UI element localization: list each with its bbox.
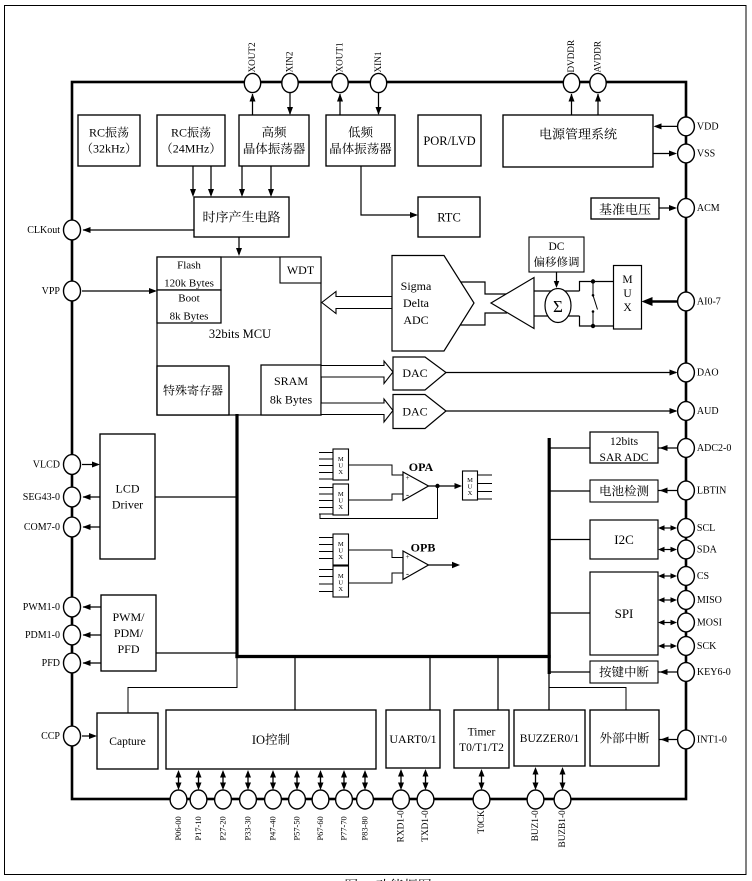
wire LCD to SEG43-0 xyxy=(83,496,100,498)
pin VLCD xyxy=(64,455,81,475)
pin ADC2-0 xyxy=(678,439,695,458)
svg-text:Timer: Timer xyxy=(468,726,496,738)
wire BUZZER to bus xyxy=(548,674,550,710)
svg-text:BUZZER0/1: BUZZER0/1 xyxy=(520,733,580,745)
pin INT1-0 xyxy=(678,730,695,749)
block DAC1 xyxy=(393,357,446,390)
svg-text:COM7-0: COM7-0 xyxy=(24,522,60,533)
wire INT1-0 to ext interrupt xyxy=(659,739,677,741)
pin P67-60 xyxy=(312,790,329,809)
block Flash 120k xyxy=(157,257,221,290)
wire VPP to MCU xyxy=(82,290,155,292)
wire P27-20 port arrow xyxy=(222,775,224,785)
wire vref to ACM xyxy=(659,207,675,209)
svg-text:I2C: I2C xyxy=(614,532,634,547)
wire OPA mux upper to + xyxy=(349,465,404,475)
wire VDD to power mgmt xyxy=(655,125,677,127)
svg-text:DVDDR: DVDDR xyxy=(566,39,576,73)
pin P77-70 xyxy=(336,790,353,809)
wire SAR ADC to bus xyxy=(549,447,590,449)
block battery detect xyxy=(590,480,658,502)
wire OPB mux lower to - xyxy=(349,573,404,583)
svg-text:RXD1-0: RXD1-0 xyxy=(397,810,407,842)
svg-text:DAC: DAC xyxy=(402,366,427,380)
pin RXD1-0 xyxy=(393,790,410,809)
pin ACM xyxy=(678,199,695,218)
wire UART to bus xyxy=(429,658,431,710)
OPA input MUX upper xyxy=(333,449,349,480)
OPB input MUX upper xyxy=(333,534,349,565)
svg-text:P17-10: P17-10 xyxy=(194,816,203,840)
block DC offset trim xyxy=(529,237,584,272)
svg-text:INT1-0: INT1-0 xyxy=(697,735,727,746)
block RTC xyxy=(418,197,480,237)
pin COM7-0 xyxy=(64,517,81,537)
block BUZZER0/1 xyxy=(514,710,585,766)
wire PWM to PDM1-0 xyxy=(83,634,101,636)
svg-text:IO: IO xyxy=(252,733,265,747)
caption text xyxy=(346,879,358,881)
svg-text:P83-80: P83-80 xyxy=(361,816,370,840)
block LCD Driver xyxy=(100,434,155,559)
pin MISO xyxy=(678,591,695,610)
svg-text:LCD: LCD xyxy=(116,482,140,496)
wire P67-60 port arrow xyxy=(320,775,322,785)
wire LF osc to RTC xyxy=(361,166,416,215)
fat arrow SRAM to DAC1 xyxy=(321,361,393,384)
block DAC2 xyxy=(393,395,446,429)
svg-text:XIN1: XIN1 xyxy=(373,51,383,72)
op-amp OPB xyxy=(403,551,429,580)
svg-text:SAR ADC: SAR ADC xyxy=(600,452,649,464)
wire OPB mux upper to + xyxy=(349,550,404,558)
block SRAM 8k xyxy=(261,365,321,415)
svg-text:Delta: Delta xyxy=(403,296,430,310)
block WDT xyxy=(280,257,321,283)
wire PWM to PWM1-0 xyxy=(83,606,101,608)
pin LBTIN xyxy=(678,481,695,500)
wire IO control to bus xyxy=(294,658,296,710)
svg-text:X: X xyxy=(338,469,343,476)
svg-text:P33-30: P33-30 xyxy=(244,816,253,840)
pin AVDDR xyxy=(590,73,606,92)
block I2C xyxy=(590,520,658,559)
pin CLKout xyxy=(64,220,81,240)
wire sigma to switch lower xyxy=(580,316,614,326)
OPA feedback wire xyxy=(320,486,438,519)
op-amp OPA xyxy=(403,472,429,501)
pin P06-00 xyxy=(170,790,187,809)
pin SCL xyxy=(678,519,695,538)
svg-text:DC: DC xyxy=(549,241,565,253)
OPA output MUX xyxy=(463,471,478,500)
fat arrow amp to ADC lower xyxy=(461,313,508,325)
block Timer T0/T1/T2 xyxy=(454,710,509,768)
svg-text:PWM/: PWM/ xyxy=(112,610,145,624)
svg-text:VPP: VPP xyxy=(42,286,61,297)
wire SPI to bus xyxy=(549,612,590,614)
block special registers xyxy=(157,366,229,415)
wire amp to sigma lower xyxy=(534,315,580,317)
svg-text:Boot: Boot xyxy=(178,292,199,304)
wire TXD1-0 port arrow xyxy=(425,774,427,785)
pin P57-50 xyxy=(289,790,306,809)
wire DAC2 to AUD xyxy=(446,410,676,412)
wire HF osc to timing gen b xyxy=(270,166,272,195)
pin CS xyxy=(678,567,695,586)
wire P77-70 port arrow xyxy=(343,775,345,785)
bus right vertical xyxy=(548,438,551,674)
svg-text:PFD: PFD xyxy=(42,658,60,669)
pin P33-30 xyxy=(240,790,257,809)
wire timing gen to MCU xyxy=(238,237,240,254)
svg-text:UART0/1: UART0/1 xyxy=(389,732,436,746)
pin MOSI xyxy=(678,613,695,632)
svg-text:Flash: Flash xyxy=(177,259,201,271)
wire SPI MISO xyxy=(663,599,672,601)
block voltage reference xyxy=(591,198,659,219)
svg-text:P47-40: P47-40 xyxy=(269,816,278,840)
svg-text:Capture: Capture xyxy=(109,736,145,748)
pin AUD xyxy=(678,402,695,421)
svg-text:WDT: WDT xyxy=(287,263,315,277)
svg-text:M: M xyxy=(622,274,632,286)
svg-text:8k Bytes: 8k Bytes xyxy=(170,310,209,322)
fat arrow ADC to MCU xyxy=(322,292,392,314)
wire timing gen to CLKout xyxy=(83,229,194,231)
block Sigma Delta ADC xyxy=(392,256,474,352)
bus bottom horizontal xyxy=(235,655,550,658)
svg-text:BUZ1-0: BUZ1-0 xyxy=(531,810,541,841)
svg-text:T0CK: T0CK xyxy=(477,810,487,834)
fat arrow SRAM to DAC2 xyxy=(321,399,393,422)
pin TXD1-0 xyxy=(417,790,434,809)
wire VLCD to LCD xyxy=(82,464,98,466)
block Boot 8k xyxy=(157,290,221,323)
block low-freq crystal oscillator xyxy=(326,115,395,166)
wire sigma to switch upper xyxy=(580,282,614,292)
pin P47-40 xyxy=(265,790,282,809)
wire 24MHz osc to timing gen a xyxy=(192,166,194,195)
block 12bits SAR ADC xyxy=(590,432,658,463)
pin DVDDR xyxy=(563,73,579,92)
svg-text:P06-00: P06-00 xyxy=(174,816,183,840)
wire XIN2 to HF oscillator xyxy=(289,93,291,114)
pin PDM1-0 xyxy=(64,625,81,645)
svg-text:XOUT2: XOUT2 xyxy=(247,42,257,73)
svg-text:8k Bytes: 8k Bytes xyxy=(270,392,313,406)
pin VSS xyxy=(678,144,695,163)
pin KEY6-0 xyxy=(678,663,695,682)
wire P06-00 port arrow xyxy=(178,775,180,785)
block RC oscillator 24MHz xyxy=(157,115,225,166)
svg-text:AUD: AUD xyxy=(697,406,719,417)
wire I2C SCL xyxy=(663,527,672,529)
wire key interrupt to bus xyxy=(549,671,590,673)
summing node sigma circle xyxy=(545,289,571,323)
svg-text:VLCD: VLCD xyxy=(33,460,60,471)
wire BUZ1-0 port arrow xyxy=(535,772,537,785)
pin CCP xyxy=(64,726,81,746)
svg-text:BUZB1-0: BUZB1-0 xyxy=(558,810,568,848)
pin VPP xyxy=(64,281,81,301)
pin SDA xyxy=(678,540,695,559)
svg-text:KEY6-0: KEY6-0 xyxy=(697,667,731,678)
analog input switch xyxy=(591,279,595,283)
svg-text:+: + xyxy=(406,553,410,561)
pin VDD xyxy=(678,117,695,136)
svg-text:AVDDR: AVDDR xyxy=(592,40,602,72)
svg-text:24MHz: 24MHz xyxy=(173,142,210,156)
wire XOUT1 to LF oscillator xyxy=(339,94,341,115)
pin P27-20 xyxy=(215,790,232,809)
block POR/LVD xyxy=(418,115,481,166)
pin T0CK xyxy=(473,790,490,809)
wire DC trim to sigma xyxy=(556,272,558,286)
wire PWM to PFD xyxy=(83,662,101,664)
wire LBTIN to battery detect xyxy=(658,490,677,492)
svg-text:SEG43-0: SEG43-0 xyxy=(23,492,60,503)
wire PWM to bus xyxy=(156,652,237,654)
pin BUZ1-0 xyxy=(527,790,544,809)
svg-text:T0/T1/T2: T0/T1/T2 xyxy=(459,742,504,754)
wire LCD to bus xyxy=(155,496,237,498)
svg-text:TXD1-0: TXD1-0 xyxy=(421,810,431,842)
wire amp to sigma upper xyxy=(534,290,580,292)
wire DVDDR from power mgmt xyxy=(571,94,573,115)
svg-text:ADC: ADC xyxy=(403,313,428,327)
wire P83-80 port arrow xyxy=(364,775,366,785)
pin XIN1 xyxy=(370,73,386,92)
svg-text:12bits: 12bits xyxy=(610,436,639,448)
svg-text:DAC: DAC xyxy=(402,405,427,419)
svg-text:CCP: CCP xyxy=(41,731,60,742)
pin P83-80 xyxy=(357,790,374,809)
svg-text:X: X xyxy=(338,586,343,593)
pin AI0-7 xyxy=(678,292,695,311)
wire SPI MOSI xyxy=(663,622,672,624)
svg-text:RC: RC xyxy=(171,126,187,140)
wire 24MHz osc to timing gen b xyxy=(210,166,212,195)
svg-text:XIN2: XIN2 xyxy=(284,51,294,72)
wire XIN1 to LF oscillator xyxy=(378,93,380,114)
svg-text:SDA: SDA xyxy=(697,545,718,556)
wire ext interrupt to bus xyxy=(549,688,626,711)
block timing generation circuit xyxy=(194,197,289,237)
wire OPA output xyxy=(429,485,461,487)
svg-text:SPI: SPI xyxy=(615,606,634,621)
svg-text:AI0-7: AI0-7 xyxy=(697,297,721,308)
wire OPA mux lower to - xyxy=(349,494,404,500)
pin XOUT1 xyxy=(332,73,348,92)
wire P17-10 port arrow xyxy=(198,775,200,785)
pin SCK xyxy=(678,637,695,656)
svg-text:SCK: SCK xyxy=(697,641,717,652)
svg-text:Driver: Driver xyxy=(112,498,143,512)
svg-text:XOUT1: XOUT1 xyxy=(334,42,344,73)
pin DAO xyxy=(678,363,695,382)
op-amp buffer triangle xyxy=(491,278,534,329)
wire SPI CS xyxy=(663,575,672,577)
svg-text:ADC2-0: ADC2-0 xyxy=(697,443,731,454)
wire CCP to Capture xyxy=(82,735,95,737)
svg-text:RTC: RTC xyxy=(437,210,461,224)
wire LCD to COM7-0 xyxy=(83,526,100,528)
pin P17-10 xyxy=(190,790,207,809)
svg-text:-: - xyxy=(406,569,409,579)
OPA input MUX lower xyxy=(333,484,349,515)
wire DAC1 to DAO xyxy=(446,372,676,374)
svg-text:X: X xyxy=(338,554,343,561)
block IO control xyxy=(166,710,376,769)
svg-text:OPB: OPB xyxy=(411,541,436,555)
wire ADC2-0 to SAR ADC xyxy=(658,447,677,449)
svg-text:X: X xyxy=(338,504,343,511)
svg-text:CS: CS xyxy=(697,571,709,582)
svg-text:PDM/: PDM/ xyxy=(114,626,144,640)
fat wire AI0-7 to MUX xyxy=(652,300,678,303)
wire T0CK port arrow xyxy=(481,774,483,785)
wire HF osc to timing gen a xyxy=(241,166,243,195)
OPB input MUX lower xyxy=(333,566,349,597)
block key interrupt xyxy=(590,661,658,683)
block Capture xyxy=(97,713,158,769)
block UART0/1 xyxy=(386,710,440,768)
svg-text:X: X xyxy=(623,302,632,314)
pin BUZB1-0 xyxy=(554,790,571,809)
wire KEY6-0 to key interrupt xyxy=(658,671,677,673)
svg-text:P57-50: P57-50 xyxy=(293,816,302,840)
svg-text:-: - xyxy=(406,490,409,500)
block external interrupt xyxy=(590,710,659,766)
block high-freq crystal oscillator xyxy=(239,115,309,166)
svg-text:DAO: DAO xyxy=(697,368,719,379)
svg-text:SCL: SCL xyxy=(697,523,715,534)
svg-text:MISO: MISO xyxy=(697,595,722,606)
svg-text:OPA: OPA xyxy=(409,460,434,474)
block SPI xyxy=(590,572,658,655)
svg-text:CLKout: CLKout xyxy=(27,225,60,236)
svg-text:PDM1-0: PDM1-0 xyxy=(25,630,60,641)
svg-text:SRAM: SRAM xyxy=(274,374,308,388)
pin PFD xyxy=(64,653,81,673)
svg-text:X: X xyxy=(468,490,473,497)
pin SEG43-0 xyxy=(64,487,81,507)
wire I2C SDA xyxy=(663,549,672,551)
wire Capture to bus xyxy=(128,657,237,713)
svg-text:PWM1-0: PWM1-0 xyxy=(23,602,60,613)
svg-text:ACM: ACM xyxy=(697,203,720,214)
svg-text:32bits MCU: 32bits MCU xyxy=(209,327,271,341)
wire XOUT2 to HF oscillator xyxy=(252,94,254,115)
block input MUX xyxy=(614,266,642,330)
svg-text:POR/LVD: POR/LVD xyxy=(423,134,475,148)
wire battery detect to bus xyxy=(549,490,590,492)
svg-text:PFD: PFD xyxy=(117,642,139,656)
svg-text:VSS: VSS xyxy=(697,149,715,160)
wire OPB output xyxy=(429,564,453,566)
pin XOUT2 xyxy=(244,73,260,92)
fat arrow amp to ADC upper xyxy=(461,282,507,294)
wire power mgmt to VSS xyxy=(653,153,675,155)
svg-text:P27-20: P27-20 xyxy=(219,816,228,840)
svg-text:P77-70: P77-70 xyxy=(340,816,349,840)
svg-text:Sigma: Sigma xyxy=(401,279,432,293)
svg-text:Σ: Σ xyxy=(553,297,563,316)
svg-text:RC: RC xyxy=(89,126,105,140)
MCU core box xyxy=(157,257,321,415)
wire RXD1-0 port arrow xyxy=(400,774,402,785)
svg-text:32kHz: 32kHz xyxy=(93,142,125,156)
wire SPI SCK xyxy=(663,645,672,647)
svg-text:U: U xyxy=(623,288,632,300)
wire P47-40 port arrow xyxy=(272,775,274,785)
wire P33-30 port arrow xyxy=(247,775,249,785)
pin XIN2 xyxy=(282,73,298,92)
wire P57-50 port arrow xyxy=(296,775,298,785)
main chip boundary box xyxy=(72,82,686,799)
svg-text:LBTIN: LBTIN xyxy=(697,486,726,497)
block PWM/PDM/PFD xyxy=(101,595,156,671)
wire I2C to bus xyxy=(549,539,590,541)
svg-text:120k Bytes: 120k Bytes xyxy=(164,277,214,289)
wire BUZB1-0 port arrow xyxy=(562,772,564,785)
pin PWM1-0 xyxy=(64,597,81,617)
svg-text:P67-60: P67-60 xyxy=(316,816,325,840)
block power management system xyxy=(503,115,653,167)
svg-text:VDD: VDD xyxy=(697,121,719,132)
bus left vertical xyxy=(235,414,238,658)
svg-text:+: + xyxy=(406,474,410,482)
wire AVDDR from power mgmt xyxy=(597,94,599,115)
svg-text:MOSI: MOSI xyxy=(697,618,722,629)
wire Timer to bus xyxy=(497,658,499,710)
block RC oscillator 32kHz xyxy=(78,115,140,166)
